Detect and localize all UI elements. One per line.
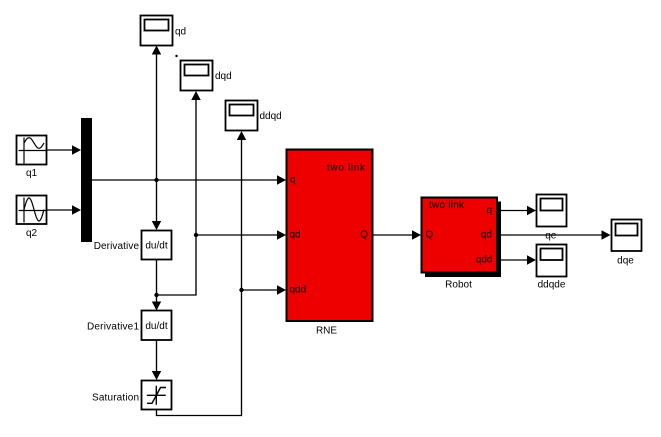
junction node on q line (154, 178, 158, 182)
scope ddqde (537, 245, 567, 277)
scope qe (537, 195, 567, 227)
stray annotation dot (175, 55, 177, 57)
svg-text:Derivative: Derivative (94, 241, 140, 252)
svg-text:Q: Q (360, 230, 368, 241)
svg-text:ddqde: ddqde (538, 280, 566, 291)
junction node on qd net (194, 233, 198, 237)
wire q2 to mux (47, 205, 81, 214)
junction node below derivative (154, 293, 158, 297)
robot subsystem block (422, 198, 498, 273)
svg-text:Derivative1: Derivative1 (87, 322, 139, 333)
source block q1 (sine wave) (17, 136, 47, 165)
scope ddqd (226, 101, 258, 131)
svg-text:q2: q2 (26, 228, 38, 239)
scope dqd (181, 61, 213, 91)
wire branch up to scope qd (152, 46, 161, 181)
wire RNE Q to Robot Q (373, 230, 421, 239)
svg-text:qd: qd (175, 27, 186, 38)
svg-text:qd: qd (290, 230, 301, 241)
mux bar (81, 118, 92, 242)
svg-text:Q: Q (426, 230, 434, 241)
svg-text:two link: two link (327, 163, 366, 174)
svg-text:qdd: qdd (290, 285, 307, 296)
wire robot qdd to scope ddqde (497, 255, 536, 264)
svg-text:two link: two link (429, 200, 465, 211)
wire saturation output to ddqd net (157, 131, 247, 416)
wire to RNE input qd (196, 230, 286, 239)
wire into Derivative1 (152, 295, 161, 311)
svg-text:q: q (290, 175, 296, 186)
scope qd (141, 16, 173, 46)
derivative1 block du/dt (142, 311, 172, 341)
svg-text:qdd: qdd (476, 255, 493, 266)
source block q2 (sine wave) (17, 196, 47, 225)
svg-text:qd: qd (481, 230, 492, 241)
wire to RNE input qdd (242, 285, 287, 294)
wire robot qd to scope dqe (497, 230, 611, 239)
wire derivative output (156, 260, 158, 296)
junction node on qdd net (239, 288, 243, 292)
svg-text:q: q (486, 205, 492, 216)
wire q1 to mux (47, 145, 81, 154)
svg-text:du/dt: du/dt (145, 241, 167, 252)
saturation block (142, 381, 172, 410)
wire elbow to qd net (157, 235, 197, 295)
svg-text:qe: qe (545, 231, 557, 242)
wire mux output to RNE input q (92, 175, 286, 184)
scope dqe (612, 220, 642, 252)
svg-text:dqd: dqd (215, 71, 232, 82)
RNE subsystem block (287, 150, 373, 322)
svg-text:RNE: RNE (316, 326, 337, 337)
svg-text:q1: q1 (26, 168, 38, 179)
svg-text:dqe: dqe (617, 256, 634, 267)
svg-text:ddqd: ddqd (260, 111, 282, 122)
svg-text:du/dt: du/dt (145, 321, 167, 332)
derivative block du/dt (142, 231, 172, 260)
wire up to scope dqd (191, 91, 200, 235)
svg-text:Robot: Robot (445, 280, 472, 291)
robot block shadow (425, 202, 501, 278)
svg-text:Saturation: Saturation (92, 393, 139, 404)
wire derivative1 output (152, 340, 161, 380)
wire robot q to scope qe (497, 206, 536, 215)
wire branch down to Derivative (152, 180, 161, 230)
